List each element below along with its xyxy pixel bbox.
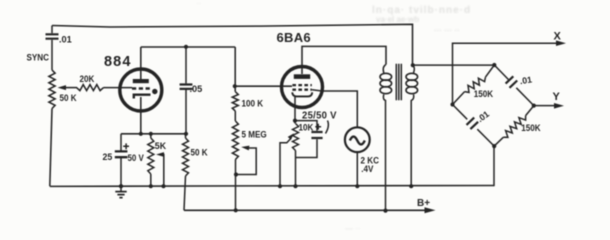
arrowhead Y output xyxy=(554,103,564,109)
node: cathode lead junction xyxy=(139,132,143,136)
capacitor C1 .01 sync coupling xyxy=(46,26,59,71)
transformer T1 secondary winding xyxy=(406,65,418,186)
wire: V1 plate bus to charging network xyxy=(141,46,235,48)
svg-text:··: ·· xyxy=(196,0,201,8)
arrowhead X output xyxy=(556,40,566,46)
node: C3 ground junction xyxy=(119,184,123,188)
svg-text:5K: 5K xyxy=(155,141,167,151)
label 884 (V1) xyxy=(104,54,132,70)
wire: V2 plate to transformer primary xyxy=(302,46,386,66)
resistor R5 100K charging xyxy=(232,92,238,111)
label .01 (C5 value) xyxy=(519,74,533,86)
label .05 (C2 value) xyxy=(190,84,203,94)
label 10K (R7 value) xyxy=(298,122,314,132)
node: C2/R4 junction xyxy=(184,132,188,136)
wire: bridge bottom vertex to ground bus xyxy=(493,146,495,186)
svg-text:— ··: — ·· xyxy=(345,224,361,233)
svg-text:SYNC: SYNC xyxy=(26,52,48,62)
node: bridge right vertex xyxy=(532,104,536,108)
wire: ground bus xyxy=(50,185,494,188)
label 150K (R8 value) xyxy=(474,88,494,98)
label 25 (C3 value) xyxy=(103,152,113,162)
node: plate bus / C2 junction xyxy=(184,45,188,49)
suppressor tie of V2 to envelope xyxy=(312,90,322,91)
capacitor C5 .01 bridge top-right arm xyxy=(494,65,534,106)
node: primary to B+ junction xyxy=(383,209,387,213)
resistor R7 10K cathode xyxy=(293,121,299,187)
node: bridge top vertex xyxy=(492,63,496,67)
cathode lead of V2 xyxy=(294,96,296,120)
wire: Y output from bridge right vertex xyxy=(534,105,559,107)
wiper arrow of R1 xyxy=(58,85,78,90)
resistor R8 150K bridge top-left arm xyxy=(453,65,495,105)
node: bridge left vertex xyxy=(450,102,454,106)
node: R3 bottom junction xyxy=(149,184,153,188)
wire: B+ rail xyxy=(184,209,428,211)
svg-text:50 K: 50 K xyxy=(59,93,77,103)
resistor R9 150K bridge bottom-right arm xyxy=(494,106,534,147)
cathode of V1 xyxy=(134,95,151,99)
cathode lead of V1 xyxy=(140,97,142,134)
svg-text:.05: .05 xyxy=(190,84,203,94)
svg-text:Y: Y xyxy=(553,91,561,103)
wire: charging chain vertical (plate bus to B+) xyxy=(234,47,236,210)
label 6BA6 (V2) xyxy=(277,30,311,45)
wiper arrow of R3 xyxy=(156,152,164,186)
node: 6BA6 grid tap xyxy=(233,84,237,88)
node: R3 wiper ground junction xyxy=(161,184,165,188)
transformer T1 primary winding xyxy=(380,65,392,212)
ground symbol xyxy=(115,184,126,198)
grid of V1 (dashed) xyxy=(132,87,151,90)
gas-filled indicator dot of V1 xyxy=(152,89,157,94)
tube V2 6BA6 envelope xyxy=(282,67,323,108)
svg-text:··· ··· ··: ··· ··· ·· xyxy=(434,26,460,35)
label Y xyxy=(553,91,561,103)
node: R7 bottom ground junction xyxy=(293,184,297,188)
label X xyxy=(554,31,562,43)
label 50V (C3 voltage) xyxy=(128,153,145,164)
svg-text:5 MEG: 5 MEG xyxy=(241,129,267,139)
node: V2 cathode junction xyxy=(293,119,297,123)
potentiometer R1 50K sync amplitude xyxy=(49,70,55,186)
label .01 (C1 value) xyxy=(59,35,72,45)
svg-text:150K: 150K xyxy=(474,88,494,98)
svg-text:50 V: 50 V xyxy=(128,153,145,164)
svg-text:100 K: 100 K xyxy=(241,98,263,108)
wire: top bus from sync capacitor to transformer secondary node xyxy=(52,24,413,65)
label 50K (R4 value) xyxy=(191,147,209,157)
svg-text:150K: 150K xyxy=(521,123,541,133)
svg-text:6BA6: 6BA6 xyxy=(277,30,311,45)
generator G1 2KC source xyxy=(345,127,370,152)
label + polarity of C3 xyxy=(123,143,129,149)
label B+ xyxy=(417,198,430,209)
node: top bus junction at secondary xyxy=(411,63,415,67)
svg-text:50 K: 50 K xyxy=(191,147,209,157)
resistor R2 20K xyxy=(77,85,104,91)
wire: X output from bridge left vertex xyxy=(453,43,563,104)
capacitor C6 .01 bridge bottom-left arm xyxy=(453,105,495,147)
node: secondary bottom ground junction xyxy=(409,184,413,188)
label 50K (R1 value) xyxy=(59,93,77,103)
wire: V2 suppressor to generator xyxy=(322,91,358,127)
label 2 KC (G1) xyxy=(361,155,379,165)
node: charging chain to B+ junction xyxy=(234,208,238,212)
label .01 (C6 value) xyxy=(475,109,491,124)
capacitor C3 25uF 50V electrolytic xyxy=(115,134,128,186)
svg-text:.01: .01 xyxy=(519,74,533,86)
node: R7 wiper ground junction xyxy=(278,184,282,188)
transformer T1 core xyxy=(396,64,401,101)
node: generator ground junction xyxy=(355,184,359,188)
tube V1 884 thyratron envelope xyxy=(120,69,162,111)
label + polarity of C4 xyxy=(315,124,321,130)
grids of V2 (dashed rows) xyxy=(292,85,311,90)
svg-text:884: 884 xyxy=(104,54,132,70)
svg-text:.01: .01 xyxy=(59,35,72,45)
svg-text:25: 25 xyxy=(103,152,113,162)
potentiometer R6 5 MEG sweep frequency xyxy=(232,121,238,160)
potentiometer R3 5K cathode bias xyxy=(148,134,154,186)
resistor R4 50K cathode bias to B+ xyxy=(183,134,189,211)
wire: generator to ground xyxy=(356,152,358,186)
wire: cathode bus of V1 xyxy=(121,133,186,135)
label 5 MEG (R6 value) xyxy=(241,129,267,139)
label 100K (R5 value) xyxy=(241,98,263,108)
label 25/50V (C4 value) xyxy=(302,110,337,133)
plate of V1 with lead xyxy=(133,47,149,83)
wiper arrow of R7 xyxy=(280,133,294,186)
label 20K (R2 value) xyxy=(80,74,96,84)
svg-text:20K: 20K xyxy=(80,74,96,84)
label 150K (R9 value) xyxy=(521,123,541,133)
label SYNC xyxy=(26,52,48,62)
svg-text:25/50 V: 25/50 V xyxy=(302,110,337,121)
svg-text:.4V: .4V xyxy=(361,164,373,174)
capacitor C4 25/50V electrolytic cathode bypass xyxy=(295,121,323,158)
node: bridge bottom vertex xyxy=(492,144,496,148)
svg-text:B+: B+ xyxy=(417,198,430,209)
label .4V (G1) xyxy=(361,164,373,174)
wire: grid of V2 6BA6 xyxy=(235,85,292,87)
wire: secondary top bus to bridge top xyxy=(413,64,495,66)
label 5K (R3 value) xyxy=(155,141,167,151)
plate of V2 with lead xyxy=(294,67,310,79)
cathode cup of V2 xyxy=(292,92,312,96)
svg-text:X: X xyxy=(554,31,562,43)
svg-text:va·el ae·wb: va·el ae·wb xyxy=(376,15,419,24)
arrowhead B+ xyxy=(425,207,436,213)
node: R3 top junction xyxy=(149,132,153,136)
wire: R2 to 884 grid xyxy=(104,87,133,89)
wiper arm of R6 (arrow + loop to bottom) xyxy=(236,146,256,175)
node: R6 wiper loop junction xyxy=(234,172,238,176)
capacitor C2 .05 sweep xyxy=(180,47,193,134)
